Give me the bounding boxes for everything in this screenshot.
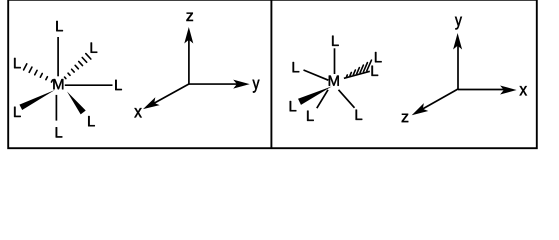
ligand L9 upper-left bbox=[293, 62, 300, 72]
bond M-L13 line bbox=[317, 90, 328, 108]
ligand L6 lower-right bbox=[88, 116, 95, 126]
axis label x left panel bbox=[134, 108, 141, 117]
axis z arrowhead right panel bbox=[412, 103, 429, 115]
axis y arrowhead left panel bbox=[233, 80, 250, 89]
bond M-L5 solid wedge bbox=[19, 90, 54, 110]
bond M-L4 horizontal line bbox=[65, 84, 113, 86]
axis x arrowhead left panel bbox=[143, 97, 160, 109]
bond M-L12 solid wedge bbox=[298, 86, 332, 104]
bond M-L6 solid wedge bbox=[67, 92, 86, 115]
axis z shaft left panel bbox=[188, 37, 190, 84]
metal M left complex bbox=[53, 79, 63, 89]
ligand L4 right bbox=[115, 80, 122, 90]
ligand L2 upper-right bbox=[91, 43, 98, 53]
axis x shaft left panel bbox=[154, 84, 189, 103]
axis z shaft right panel bbox=[423, 89, 459, 109]
ligand L8 top bbox=[332, 36, 339, 46]
bond M-L8 vertical line bbox=[334, 48, 336, 74]
ligand L13 bottom-left bbox=[307, 111, 314, 121]
ligand L5 lower-left bbox=[14, 107, 21, 117]
bond M-L11 line bbox=[344, 71, 370, 78]
axis z arrowhead left panel bbox=[184, 27, 193, 44]
axis y arrowhead right panel bbox=[453, 33, 462, 50]
ligand L11 right-lower bbox=[372, 66, 379, 76]
ligand L14 bottom-right bbox=[356, 110, 363, 120]
panel divider bbox=[270, 1, 272, 149]
bond M-L1 vertical line bbox=[57, 37, 59, 76]
metal M right complex bbox=[329, 76, 339, 86]
axis label y left panel bbox=[253, 80, 260, 93]
axis y shaft left panel bbox=[189, 83, 239, 85]
bond M-L7 vertical line bbox=[55, 95, 57, 121]
axis label x right panel bbox=[520, 86, 527, 95]
ligand L3 left bbox=[14, 58, 21, 68]
bond M-L2 hashed wedge bbox=[65, 54, 91, 79]
bond M-L9 line bbox=[304, 70, 329, 80]
axis x shaft right panel bbox=[458, 89, 506, 91]
axis label z right panel bbox=[402, 114, 409, 122]
bond M-L10 hashed wedge bbox=[347, 60, 372, 76]
axis y shaft right panel bbox=[457, 43, 459, 89]
bond M-L3 hashed wedge bbox=[24, 64, 53, 82]
axis x arrowhead right panel bbox=[500, 86, 516, 95]
ligand L10 right-upper bbox=[375, 52, 382, 62]
axis label z left panel bbox=[186, 13, 193, 21]
bond M-L14 line bbox=[339, 90, 355, 108]
ligand L7 bottom bbox=[56, 127, 63, 137]
ligand L12 far-left bbox=[290, 101, 297, 111]
axis label y right panel bbox=[455, 17, 462, 30]
panel border bbox=[8, 0, 537, 148]
ligand L1 top bbox=[56, 21, 63, 31]
